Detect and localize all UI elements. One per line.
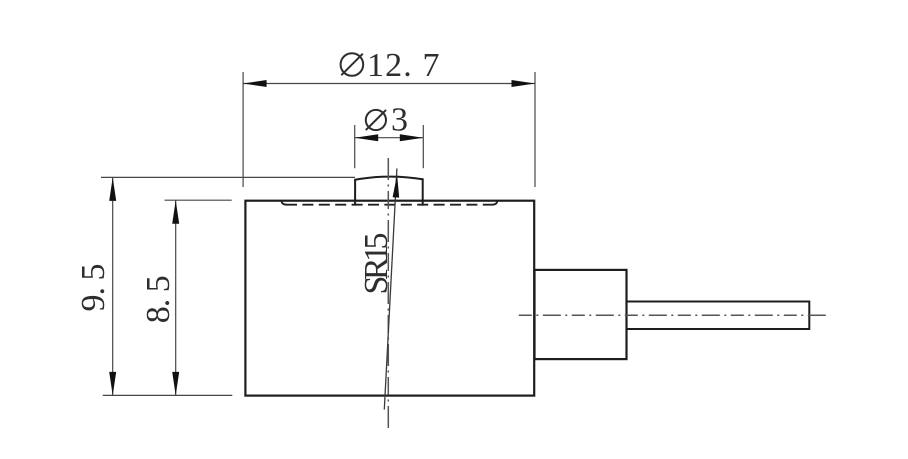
hidden line left hook: [281, 201, 286, 205]
dim 8.5 dimension line: [175, 200, 177, 395]
SR15 leader arrowhead: [393, 175, 400, 198]
svg-text:12. 7: 12. 7: [367, 47, 440, 84]
dim 9.5 arrowhead down: [109, 372, 116, 396]
cable: [627, 302, 810, 330]
dim Ø12.7 arrowhead right: [512, 80, 536, 87]
horizontal centerline: [519, 314, 829, 316]
button right edge: [422, 179, 424, 205]
vertical centerline: [387, 158, 389, 430]
dim 9.5 / 8.5 extension line bottom: [103, 394, 233, 396]
button top spherical arc SR15: [354, 177, 423, 180]
dim Ø12.7 extension line left: [242, 72, 244, 187]
dim Ø3 dimension line: [355, 137, 424, 139]
dim Ø3 diameter symbol: [366, 110, 386, 130]
connector block: [535, 270, 627, 359]
hidden dashed line inside body: [286, 204, 493, 206]
dim Ø3 extension line right: [422, 125, 424, 168]
dim Ø3 arrowhead left: [355, 134, 379, 141]
dim Ø12.7 diameter symbol: [341, 53, 364, 76]
dim 9.5 dimension line: [112, 177, 114, 395]
button left edge: [354, 180, 356, 206]
dim 8.5 arrowhead down: [172, 372, 179, 396]
dim 8.5 extension line top: [165, 199, 232, 201]
dim 9.5 extension line top: [101, 176, 355, 178]
dim Ø12.7 extension line right: [534, 72, 536, 187]
svg-text:9. 5: 9. 5: [75, 264, 112, 312]
svg-text:3: 3: [391, 101, 408, 138]
dim Ø12.7 arrowhead left: [243, 80, 267, 87]
dim Ø12.7 dimension line: [243, 83, 535, 85]
svg-text:SR15: SR15: [358, 233, 395, 295]
dim Ø3 extension line left: [354, 125, 356, 168]
dim 9.5 arrowhead up: [109, 177, 116, 201]
svg-text:8. 5: 8. 5: [140, 275, 177, 323]
dim Ø3 arrowhead right: [400, 134, 424, 141]
body outline (main housing rectangle): [245, 201, 534, 396]
dim 8.5 arrowhead up: [172, 200, 179, 224]
SR15 leader line: [384, 169, 397, 410]
hidden line right hook: [492, 201, 497, 205]
